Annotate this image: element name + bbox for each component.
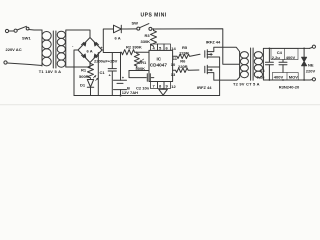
svg-text:220R: 220R xyxy=(179,50,189,55)
transformer T2 xyxy=(233,48,263,87)
switch SW1 xyxy=(9,26,32,40)
svg-text:10: 10 xyxy=(171,62,176,67)
svg-text:220V: 220V xyxy=(306,68,316,73)
transistor Q2 IRFZ44 xyxy=(197,65,240,95)
diode top-right xyxy=(94,42,99,46)
svg-text:SW1: SW1 xyxy=(22,36,31,41)
svg-text:500R: 500R xyxy=(79,74,89,79)
capacitor C1 2200uF 25V xyxy=(94,53,118,96)
svg-text:6 A: 6 A xyxy=(115,35,121,40)
junction dots output network xyxy=(269,48,306,81)
diode bottom-left xyxy=(81,54,86,58)
resistor R5 220R xyxy=(173,45,200,58)
transformer T1 xyxy=(39,30,66,74)
resistor R1 500R xyxy=(79,63,94,80)
diode D2 6A charging xyxy=(114,25,137,40)
svg-text:330K: 330K xyxy=(141,39,151,44)
capacitor C2 xyxy=(127,71,154,91)
svg-text:D1: D1 xyxy=(80,83,86,88)
wire top dc rail to center tap xyxy=(152,29,240,64)
varistor MOV box labels xyxy=(272,72,300,89)
terminal J1 neutral input xyxy=(4,61,7,64)
svg-text:T2 9V CT 5 A: T2 9V CT 5 A xyxy=(233,82,260,87)
wire input bottom to T1 primary bottom xyxy=(7,63,42,66)
wire output bottom rail xyxy=(263,77,310,80)
scan smudge bottom xyxy=(0,104,320,105)
primary winding xyxy=(41,30,43,66)
secondary winding xyxy=(57,31,65,67)
svg-text:500K: 500K xyxy=(136,66,146,71)
svg-text:C3: C3 xyxy=(260,68,266,73)
IC U1 CD4047 xyxy=(149,44,178,89)
svg-text:MOV: MOV xyxy=(289,74,298,79)
svg-text:VR1: VR1 xyxy=(139,60,148,65)
svg-text:R3N240-20: R3N240-20 xyxy=(279,84,300,89)
wire T1 secondary bottom to bridge xyxy=(66,63,90,68)
svg-text:R2 390K: R2 390K xyxy=(126,45,142,50)
svg-text:IRFZ 44: IRFZ 44 xyxy=(197,85,212,90)
svg-text:220R: 220R xyxy=(178,64,188,69)
capacitor C3 0.1u 400V xyxy=(257,48,274,80)
svg-text:13: 13 xyxy=(171,72,176,77)
wire bridge minus down to bottom rail xyxy=(74,50,78,96)
svg-text:UPS MINI: UPS MINI xyxy=(141,13,167,19)
wire T1 secondary top to bridge xyxy=(66,30,90,38)
pin boxes top 4 5 6 14 xyxy=(151,44,177,51)
svg-text:C1: C1 xyxy=(100,70,106,75)
svg-text:NE: NE xyxy=(308,63,314,68)
svg-text:SW: SW xyxy=(132,21,139,26)
svg-text:6 A: 6 A xyxy=(87,48,93,53)
terminal output live xyxy=(310,45,316,48)
bridge rectifier BR1 xyxy=(72,38,103,63)
svg-text:400V: 400V xyxy=(286,55,296,60)
core xyxy=(52,31,54,68)
svg-text:2200uF+25V: 2200uF+25V xyxy=(94,58,118,63)
svg-text:400V: 400V xyxy=(274,74,284,79)
terminal output neutral xyxy=(310,78,316,81)
switch SW dc xyxy=(132,21,152,31)
resistor R6 220R xyxy=(173,59,199,73)
wire plus node horizontal xyxy=(103,50,120,53)
svg-text:12: 12 xyxy=(171,84,176,89)
ground xyxy=(159,89,168,96)
svg-text:R3: R3 xyxy=(145,33,151,38)
neon lamp NE 220V xyxy=(302,48,316,80)
potentiometer VR1 500K xyxy=(129,52,149,71)
terminal J1 line input xyxy=(5,29,8,32)
bottom rail xyxy=(74,95,220,97)
svg-text:T1 18V 5 A: T1 18V 5 A xyxy=(39,69,62,74)
capacitor C4 2.2u 400V xyxy=(271,48,298,72)
transistor Q1 IRFZ44 xyxy=(205,40,240,67)
svg-text:220V AC: 220V AC xyxy=(6,47,22,52)
svg-text:B: B xyxy=(127,86,130,91)
svg-text:IRFZ 44: IRFZ 44 xyxy=(206,40,221,45)
diode bottom-right xyxy=(94,54,99,58)
LED D1 xyxy=(80,75,98,95)
svg-text:IC: IC xyxy=(157,56,162,61)
svg-text:CD4047: CD4047 xyxy=(150,63,168,68)
wire output top rail xyxy=(263,48,309,51)
pin boxes bottom 7 8 9 12 xyxy=(151,82,177,90)
battery BT1 12V 7AH xyxy=(114,53,139,97)
resistor R2 390K xyxy=(121,45,150,55)
resistor R3 330K xyxy=(141,29,157,47)
wire bridge plus up to diode xyxy=(102,29,114,50)
svg-text:14: 14 xyxy=(171,46,176,51)
svg-text:R1: R1 xyxy=(81,68,87,73)
wire DC minus branch xyxy=(97,53,99,96)
svg-text:0,1u: 0,1u xyxy=(257,74,266,79)
diode top-left xyxy=(81,42,86,46)
svg-text:C2 10n: C2 10n xyxy=(136,86,150,91)
svg-text:2,2u: 2,2u xyxy=(272,55,281,60)
wire SW1 to T1 primary top xyxy=(29,29,42,32)
